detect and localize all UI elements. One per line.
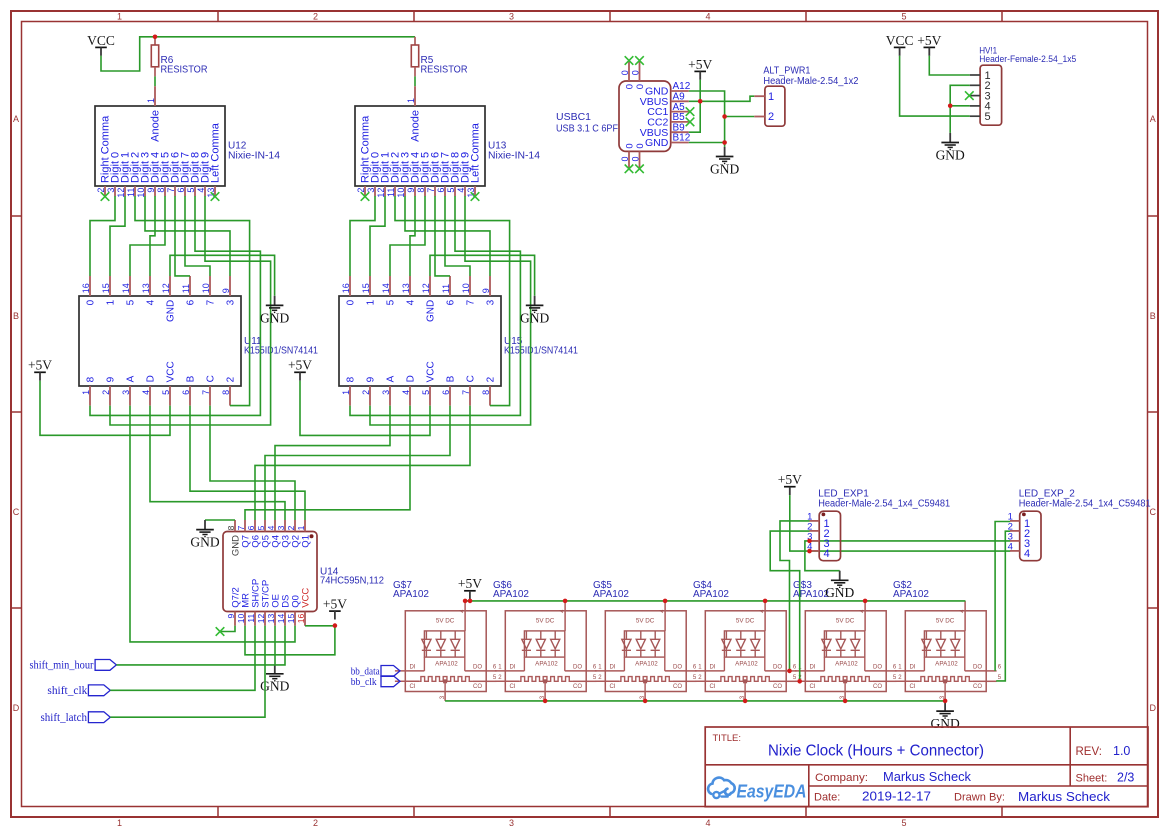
svg-text:7: 7 — [236, 525, 246, 530]
svg-text:+5V: +5V — [458, 576, 482, 591]
svg-text:16: 16 — [296, 614, 306, 624]
wire Q0 to U11 A — [130, 406, 295, 642]
wire Digit8 — [350, 196, 520, 415]
svg-text:CO: CO — [773, 684, 782, 690]
svg-text:Anode: Anode — [149, 110, 161, 142]
svg-text:DI: DI — [710, 665, 716, 671]
resistor R5 — [414, 37, 416, 45]
wire shift_clk to SH/CP — [110, 626, 255, 691]
svg-text:5V DC: 5V DC — [736, 618, 755, 625]
svg-text:C: C — [13, 507, 20, 517]
svg-text:CI: CI — [810, 684, 816, 690]
svg-text:8: 8 — [226, 525, 236, 530]
ground — [260, 296, 289, 326]
svg-text:USBC1: USBC1 — [556, 112, 591, 123]
no-connect X HV pin3 — [965, 91, 974, 100]
wire Digit2 — [135, 196, 250, 406]
svg-text:APA102: APA102 — [835, 661, 858, 668]
svg-text:2019-12-17: 2019-12-17 — [862, 789, 931, 803]
svg-text:15: 15 — [361, 283, 371, 293]
svg-text:DO: DO — [973, 665, 982, 671]
wire LED_EXP1 pin3 to ground — [805, 541, 840, 571]
shift register U14 — [223, 520, 384, 626]
wire shift_latch to ST/CP — [110, 626, 265, 717]
LED module G$5 — [593, 580, 697, 701]
svg-text:DI: DI — [410, 665, 416, 671]
svg-text:GND: GND — [645, 137, 669, 149]
svg-text:3: 3 — [366, 188, 376, 193]
wire LED_EXP pin4 bus — [810, 550, 1011, 552]
svg-text:Header-Male-2.54_1x4_C59481: Header-Male-2.54_1x4_C59481 — [818, 499, 950, 510]
wire Digit0 — [90, 196, 115, 276]
svg-text:A: A — [13, 114, 19, 124]
svg-text:APA102: APA102 — [935, 661, 958, 668]
svg-text:3: 3 — [225, 299, 236, 305]
resistor R6 — [154, 37, 156, 45]
svg-text:4: 4 — [1024, 548, 1030, 560]
svg-text:0: 0 — [620, 156, 630, 161]
svg-text:0: 0 — [624, 143, 635, 148]
power flag +5V U14 — [323, 597, 347, 620]
svg-text:GND: GND — [936, 147, 965, 162]
svg-text:7: 7 — [166, 188, 176, 193]
wire MR to +5V — [245, 626, 335, 655]
ground APA rail — [930, 702, 959, 732]
svg-text:2: 2 — [485, 376, 496, 382]
svg-text:5: 5 — [161, 390, 171, 395]
svg-text:TITLE:: TITLE: — [713, 733, 742, 744]
svg-text:2: 2 — [101, 390, 111, 395]
svg-text:5: 5 — [256, 525, 266, 530]
svg-text:4: 4 — [141, 390, 151, 395]
svg-text:1: 1 — [365, 299, 376, 305]
svg-text:5V DC: 5V DC — [436, 618, 455, 625]
svg-text:8: 8 — [221, 390, 231, 395]
no-connect U14 pin 9 — [221, 626, 235, 632]
svg-text:bb_clk: bb_clk — [351, 676, 377, 688]
svg-text:15: 15 — [101, 283, 111, 293]
no-connect X CC1 — [686, 107, 695, 116]
svg-text:5: 5 — [421, 390, 431, 395]
svg-text:K155ID1/SN74141: K155ID1/SN74141 — [244, 346, 318, 357]
svg-text:8: 8 — [416, 188, 426, 193]
driver U11 — [79, 276, 318, 406]
svg-text:GND: GND — [425, 300, 436, 322]
svg-text:+5V: +5V — [288, 358, 312, 373]
svg-text:C: C — [465, 375, 476, 382]
svg-text:6: 6 — [176, 188, 186, 193]
svg-text:APA102: APA102 — [493, 589, 529, 600]
svg-text:2/3: 2/3 — [1117, 770, 1134, 784]
svg-text:Header-Male-2.54_1x2: Header-Male-2.54_1x2 — [763, 76, 858, 87]
svg-text:1: 1 — [117, 11, 122, 21]
svg-text:5: 5 — [901, 11, 906, 21]
svg-text:8: 8 — [156, 188, 166, 193]
wire Digit4 — [150, 196, 155, 276]
svg-text:7: 7 — [201, 390, 211, 395]
wire ALT_PWR1 pin2 to GND — [725, 116, 755, 118]
svg-text:D: D — [1150, 703, 1157, 713]
svg-text:4: 4 — [456, 188, 466, 193]
svg-text:Date:: Date: — [814, 791, 840, 803]
svg-text:+5V: +5V — [28, 358, 52, 373]
svg-text:15: 15 — [286, 614, 296, 624]
svg-text:6: 6 — [445, 299, 456, 305]
LED module G$2 — [893, 580, 997, 701]
no-connect X U12 pin 13 — [211, 192, 220, 201]
svg-text:APA102: APA102 — [693, 589, 729, 600]
svg-text:B: B — [185, 375, 196, 382]
svg-text:4: 4 — [1008, 542, 1013, 553]
ground USB — [710, 147, 739, 177]
wire Q7 to U15 D — [245, 406, 410, 520]
power flag +5V left — [28, 358, 52, 381]
net flag bb_clk — [351, 676, 400, 688]
svg-text:14: 14 — [276, 614, 286, 624]
svg-text:0: 0 — [85, 299, 96, 305]
wire Digit3 — [145, 196, 230, 276]
power flag +5V middle — [288, 358, 312, 381]
svg-text:1: 1 — [341, 390, 351, 395]
wire Digit4 — [410, 196, 415, 276]
EasyEDA logo — [708, 778, 806, 802]
svg-text:2: 2 — [313, 818, 318, 828]
svg-text:Anode: Anode — [409, 110, 421, 142]
svg-text:CI: CI — [610, 684, 616, 690]
svg-text:K155ID1/SN74141: K155ID1/SN74141 — [504, 346, 578, 357]
wire Digit5 — [130, 196, 165, 276]
svg-text:7: 7 — [426, 188, 436, 193]
wire VBUS A9 to ALT_PWR1 pin1 — [689, 96, 755, 101]
svg-text:CI: CI — [710, 684, 716, 690]
wire LED_EXP pin3 bus — [810, 540, 1011, 542]
ground U14 OE — [260, 664, 289, 694]
wire Digit7 — [185, 196, 210, 276]
ground U14 top — [205, 519, 235, 521]
wire Q2 to U11 C — [210, 406, 295, 520]
svg-text:5V DC: 5V DC — [536, 618, 555, 625]
svg-text:6: 6 — [246, 525, 256, 530]
svg-text:shift_latch: shift_latch — [41, 710, 88, 724]
svg-text:2: 2 — [313, 11, 318, 21]
svg-text:3: 3 — [509, 11, 514, 21]
svg-text:16: 16 — [81, 283, 91, 293]
svg-text:3: 3 — [381, 390, 391, 395]
svg-text:9: 9 — [105, 376, 116, 382]
svg-text:CO: CO — [873, 684, 882, 690]
svg-text:DI: DI — [610, 665, 616, 671]
svg-text:+5V: +5V — [917, 33, 941, 48]
ground HV — [936, 133, 965, 163]
svg-text:DI: DI — [910, 665, 916, 671]
svg-text:RESISTOR: RESISTOR — [161, 65, 208, 76]
svg-text:DO: DO — [473, 665, 482, 671]
svg-text:6: 6 — [441, 390, 451, 395]
svg-text:9: 9 — [365, 376, 376, 382]
wire Digit6 — [175, 196, 190, 276]
svg-text:6: 6 — [436, 188, 446, 193]
svg-text:3: 3 — [106, 188, 116, 193]
svg-text:11: 11 — [181, 284, 191, 293]
svg-text:12: 12 — [421, 283, 431, 293]
LED module G$7 — [393, 580, 497, 701]
svg-text:7: 7 — [465, 299, 476, 305]
net flag shift_min_hour — [30, 658, 117, 672]
wire +5V to LED_EXP1 pin4 — [790, 495, 810, 551]
wire +5V to HV pin1 — [929, 56, 970, 75]
svg-text:DO: DO — [673, 665, 682, 671]
wire shift_min_hour to DS — [116, 626, 285, 665]
wire driver GND — [430, 255, 535, 295]
no-connect X USBC1 shield pins — [625, 56, 634, 65]
svg-text:GND: GND — [930, 716, 959, 731]
wire +5V to U11 VCC — [40, 381, 170, 436]
svg-text:4: 4 — [196, 188, 206, 193]
svg-text:5: 5 — [446, 188, 456, 193]
svg-text:13: 13 — [266, 614, 276, 624]
svg-text:5: 5 — [385, 299, 396, 305]
wire GND B12 — [689, 142, 725, 144]
svg-text:3: 3 — [276, 525, 286, 530]
svg-text:6: 6 — [181, 390, 191, 395]
wire +5V to VBUS — [689, 80, 700, 132]
svg-text:0: 0 — [345, 299, 356, 305]
svg-text:Sheet:: Sheet: — [1076, 772, 1108, 784]
wire Digit7 — [445, 196, 470, 276]
net flag bb_data — [351, 666, 400, 678]
no-connect X CC2 — [686, 118, 695, 127]
wire Digit0 — [350, 196, 375, 276]
USB connector USBC1 — [556, 61, 691, 169]
svg-text:APA102: APA102 — [593, 589, 629, 600]
driver U15 — [339, 276, 578, 406]
header HV!1 — [970, 46, 1076, 126]
svg-text:10: 10 — [236, 614, 246, 624]
svg-text:8: 8 — [85, 376, 96, 382]
svg-text:+5V: +5V — [688, 57, 712, 72]
svg-text:9: 9 — [226, 614, 236, 619]
svg-text:1.0: 1.0 — [1113, 744, 1130, 758]
header ALT_PWR1 — [754, 66, 859, 127]
svg-text:2: 2 — [768, 111, 774, 123]
svg-text:2: 2 — [286, 525, 296, 530]
svg-text:B: B — [13, 311, 19, 321]
svg-text:10: 10 — [201, 283, 211, 293]
svg-text:D: D — [145, 375, 156, 382]
svg-text:EasyEDA: EasyEDA — [737, 782, 807, 802]
svg-text:shift_min_hour: shift_min_hour — [30, 658, 94, 672]
wire GND rail APA102 — [445, 700, 945, 702]
header LED_EXP1 — [807, 488, 950, 560]
svg-text:APA102: APA102 — [535, 661, 558, 668]
svg-text:16: 16 — [341, 283, 351, 293]
svg-text:11: 11 — [126, 188, 136, 197]
wire Digit1 — [370, 196, 385, 276]
power flag +5V right — [917, 33, 941, 56]
svg-text:Nixie-IN-14: Nixie-IN-14 — [228, 151, 280, 162]
svg-text:9: 9 — [406, 188, 416, 193]
svg-text:74HC595N,112: 74HC595N,112 — [320, 576, 384, 587]
svg-text:4: 4 — [705, 11, 710, 21]
svg-text:VCC: VCC — [425, 361, 436, 382]
svg-text:2: 2 — [225, 376, 236, 382]
svg-text:+5V: +5V — [778, 472, 802, 487]
svg-text:DO: DO — [773, 665, 782, 671]
wire HV pin4 — [950, 105, 970, 107]
svg-text:7: 7 — [461, 390, 471, 395]
wire Q1 to U11 B — [190, 406, 305, 520]
no-connect X U13 pin 13 — [471, 192, 480, 201]
svg-text:APA102: APA102 — [393, 589, 429, 600]
svg-text:REV:: REV: — [1076, 746, 1102, 758]
svg-text:A: A — [385, 375, 396, 382]
svg-text:0: 0 — [631, 156, 641, 161]
svg-text:Header-Female-2.54_1x5: Header-Female-2.54_1x5 — [979, 54, 1076, 65]
header LED_EXP_2 — [1008, 488, 1151, 560]
wire Digit8 — [90, 196, 260, 415]
svg-text:0: 0 — [624, 84, 635, 89]
LED module G$3 — [793, 580, 897, 701]
wire VCC U14 — [305, 625, 335, 627]
net flag shift_clk — [47, 683, 110, 697]
svg-text:4: 4 — [145, 299, 156, 305]
svg-text:APA102: APA102 — [435, 661, 458, 668]
svg-text:Company:: Company: — [815, 772, 868, 784]
svg-text:CI: CI — [910, 684, 916, 690]
wire driver GND — [170, 255, 275, 295]
svg-text:VCC: VCC — [300, 588, 311, 608]
wire HV pin2 to ground — [950, 85, 970, 133]
svg-text:1: 1 — [768, 91, 774, 103]
svg-text:9: 9 — [481, 288, 491, 293]
svg-text:GND: GND — [520, 310, 549, 325]
svg-text:Header-Male-2.54_1x4_C59481: Header-Male-2.54_1x4_C59481 — [1019, 499, 1151, 510]
svg-text:1: 1 — [105, 299, 116, 305]
svg-text:B12: B12 — [673, 133, 691, 144]
svg-text:4: 4 — [705, 818, 710, 828]
svg-text:13: 13 — [401, 283, 411, 293]
svg-text:4: 4 — [401, 390, 411, 395]
svg-text:8: 8 — [345, 376, 356, 382]
svg-text:Drawn By:: Drawn By: — [954, 791, 1005, 803]
svg-text:CI: CI — [410, 684, 416, 690]
svg-text:1: 1 — [117, 818, 122, 828]
svg-text:9: 9 — [221, 288, 231, 293]
svg-text:12: 12 — [161, 283, 171, 293]
svg-text:APA102: APA102 — [635, 661, 658, 668]
svg-text:2: 2 — [361, 390, 371, 395]
wire Q4 to U15 A — [275, 406, 390, 520]
nixie tube U13 — [355, 86, 540, 197]
wire Digit5 — [390, 196, 425, 276]
wire Digit9 — [110, 196, 271, 425]
svg-text:Nixie Clock (Hours + Connector: Nixie Clock (Hours + Connector) — [768, 743, 984, 760]
power flag +5V APA rail — [458, 576, 482, 599]
svg-text:1: 1 — [146, 98, 156, 103]
svg-text:CI: CI — [510, 684, 516, 690]
svg-text:0: 0 — [631, 70, 641, 75]
svg-text:4: 4 — [266, 525, 276, 530]
svg-text:GND: GND — [165, 300, 176, 322]
svg-text:5: 5 — [125, 299, 136, 305]
wire VCC to anode rail — [101, 37, 415, 71]
svg-text:3: 3 — [121, 390, 131, 395]
svg-text:+5V: +5V — [323, 597, 347, 612]
net flag shift_latch — [41, 710, 111, 724]
LED module G$4 — [693, 580, 797, 701]
wire VCC to HV pin5 — [900, 56, 970, 116]
svg-text:USB 3.1 C 6PF: USB 3.1 C 6PF — [556, 123, 618, 134]
svg-text:CO: CO — [973, 684, 982, 690]
svg-text:DO: DO — [873, 665, 882, 671]
power flag VCC right — [886, 33, 914, 56]
svg-text:VCC: VCC — [87, 33, 115, 48]
svg-text:GND: GND — [710, 161, 739, 176]
svg-text:Left Comma: Left Comma — [209, 122, 221, 183]
wire Digit3 — [405, 196, 490, 276]
svg-text:CO: CO — [573, 684, 582, 690]
wire Q3 to U11 D — [150, 406, 285, 520]
svg-text:B: B — [1150, 311, 1156, 321]
svg-text:0: 0 — [620, 70, 630, 75]
LED module G$6 — [493, 580, 597, 701]
svg-text:11: 11 — [441, 284, 451, 293]
svg-text:CO: CO — [473, 684, 482, 690]
svg-text:D: D — [405, 375, 416, 382]
svg-text:Left Comma: Left Comma — [469, 122, 481, 183]
wire Q6 to U15 C — [255, 406, 470, 520]
ground LED_EXP1 — [825, 571, 854, 601]
svg-text:4: 4 — [824, 548, 830, 560]
svg-text:Nixie-IN-14: Nixie-IN-14 — [488, 151, 540, 162]
svg-text:APA102: APA102 — [735, 661, 758, 668]
svg-text:7: 7 — [205, 299, 216, 305]
wire +5V to U15 VCC — [300, 381, 430, 436]
svg-text:8: 8 — [481, 390, 491, 395]
svg-text:11: 11 — [386, 188, 396, 197]
wire +5V rail APA102 — [465, 600, 965, 602]
svg-text:GND: GND — [825, 585, 854, 600]
svg-text:Markus Scheck: Markus Scheck — [883, 770, 972, 784]
svg-text:9: 9 — [146, 188, 156, 193]
svg-text:1: 1 — [296, 525, 306, 530]
wire LED_EXP1 pin1 to data link — [780, 521, 810, 671]
wire Digit9 — [370, 196, 531, 425]
svg-text:CO: CO — [673, 684, 682, 690]
wire Q5 to U15 B — [265, 406, 450, 520]
svg-text:5: 5 — [901, 818, 906, 828]
wire GND A12 to ground — [689, 91, 725, 147]
svg-text:APA102: APA102 — [893, 589, 929, 600]
svg-text:A: A — [125, 375, 136, 382]
power flag +5V USB — [688, 57, 712, 80]
svg-text:10: 10 — [461, 283, 471, 293]
svg-text:shift_clk: shift_clk — [47, 683, 87, 697]
svg-text:C: C — [205, 375, 216, 382]
svg-text:14: 14 — [121, 283, 131, 293]
svg-text:5V DC: 5V DC — [836, 618, 855, 625]
svg-text:B: B — [445, 375, 456, 382]
svg-text:DI: DI — [510, 665, 516, 671]
svg-text:5: 5 — [985, 111, 991, 123]
svg-text:4: 4 — [405, 299, 416, 305]
svg-text:A: A — [1150, 114, 1156, 124]
wire OE to ground — [274, 626, 276, 664]
no-connect X U12 pin 2 — [101, 192, 110, 201]
svg-text:Markus Scheck: Markus Scheck — [1018, 789, 1111, 804]
svg-text:APA102: APA102 — [793, 589, 829, 600]
wire LED_EXP_2 pin2 to CO — [996, 531, 1010, 681]
